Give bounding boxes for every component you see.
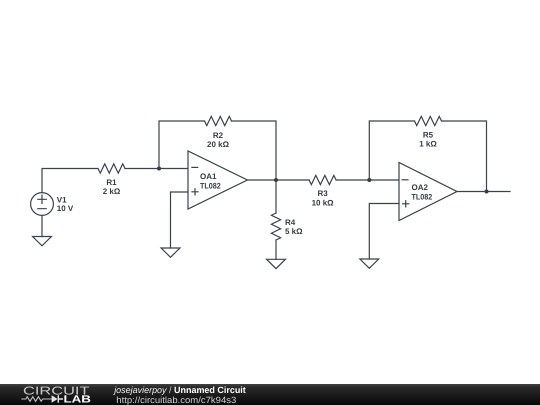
svg-text:20 kΩ: 20 kΩ [207,140,230,149]
label R3 value [312,189,335,207]
label R2 value [207,131,230,149]
wire node B to R4 [275,180,277,213]
node A junction dot [157,167,161,171]
ground V1 [33,237,52,246]
op-amp OA1 plus pin symbol [192,189,198,195]
label OA1 [200,172,221,190]
svg-text:2 kΩ: 2 kΩ [103,187,121,196]
wire feedback left vertical [159,121,205,169]
ground OA2 [360,259,379,268]
wire R2 to OA1 output [232,121,277,180]
label R5 value [419,130,437,148]
resistor R5 [415,116,442,125]
svg-text:10 V: 10 V [57,204,74,213]
wire OA2 non-inverting input to ground [369,204,399,260]
ground OA1 [161,248,180,257]
resistor R3 [309,175,336,184]
op-amp OA1 minus pin symbol [192,166,198,168]
wire R3 to OA2 inverting input [336,179,399,181]
wire R1 to OA1 inverting input [125,168,188,170]
footer bar [0,384,540,405]
footer title line [113,385,246,395]
wire R4 to ground [275,240,277,259]
logo LAB word [64,395,92,405]
node D junction dot (OA2 output) [485,190,489,194]
svg-text:TL082: TL082 [200,181,221,190]
wire OA1 non-inverting input to ground [171,192,189,248]
resistor R4 [271,213,280,240]
resistor R1 [98,164,125,173]
svg-text:josejavierpoy / Unnamed Circui: josejavierpoy / Unnamed Circuit [113,385,246,395]
svg-text:R5: R5 [423,130,434,139]
wire V1 top to R1 [42,169,98,193]
svg-text:LAB: LAB [64,395,92,405]
op-amp OA2 plus pin symbol [403,201,409,207]
wire feedback 2 left vertical [369,121,414,180]
svg-text:1 kΩ: 1 kΩ [419,140,437,149]
svg-text:R2: R2 [213,131,224,140]
wire V1 to ground [41,215,43,236]
footer url line [116,395,236,405]
svg-text:R1: R1 [106,178,117,187]
label V1 value [57,195,74,213]
svg-text:10 kΩ: 10 kΩ [312,199,335,208]
wire OA2 output [457,191,510,193]
resistor R2 [205,116,232,125]
logo CIRCUIT word [23,385,90,397]
label OA2 [412,183,433,201]
svg-text:R3: R3 [317,189,328,198]
wire R5 to OA2 output [442,121,487,192]
svg-text:TL082: TL082 [412,193,433,202]
svg-text:OA1: OA1 [200,172,217,181]
svg-text:http://circuitlab.com/c7k94s3: http://circuitlab.com/c7k94s3 [116,395,236,405]
op-amp OA2 minus pin symbol [402,179,408,181]
voltage source V1 [31,193,54,216]
label R1 value [103,178,121,196]
svg-text:5 kΩ: 5 kΩ [285,227,303,236]
label R4 value [285,218,303,236]
wire OA1 output to R3 [247,179,309,181]
node C junction dot (OA2 inverting) [367,178,371,182]
op-amp U2 OA2 body [399,163,457,221]
node B junction dot (OA1 output) [274,178,278,182]
op-amp U1 OA1 body [188,151,247,209]
svg-text:R4: R4 [285,218,296,227]
ground R4 [267,259,286,268]
logo resistor zigzag [21,397,51,402]
logo diode symbol [52,395,63,403]
svg-text:OA2: OA2 [412,183,429,192]
